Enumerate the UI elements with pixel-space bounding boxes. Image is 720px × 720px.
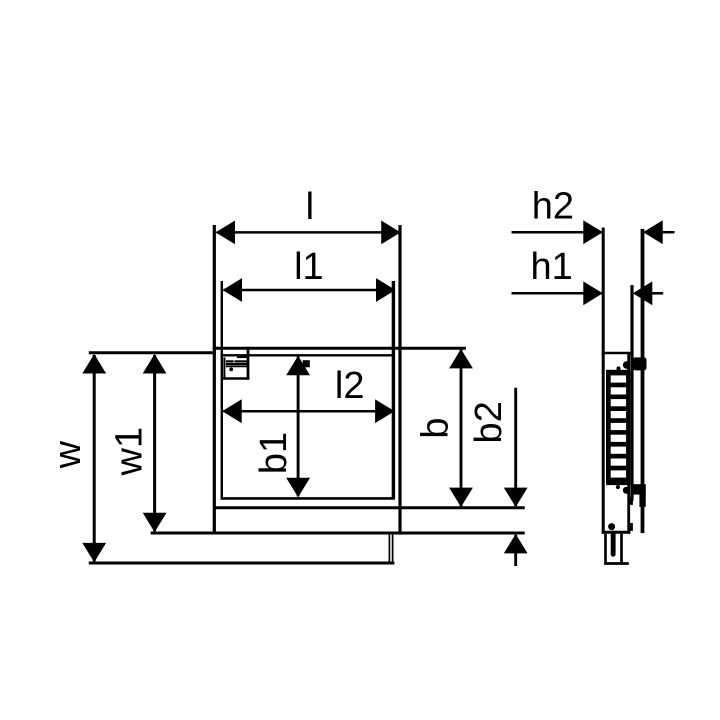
svg-text:w1: w1 [109, 427, 151, 477]
svg-text:l2: l2 [335, 365, 365, 407]
svg-text:h2: h2 [532, 185, 574, 227]
svg-text:w: w [47, 440, 89, 469]
svg-text:l: l [306, 186, 314, 228]
svg-text:b2: b2 [468, 401, 510, 443]
svg-text:b1: b1 [253, 432, 295, 474]
svg-text:l1: l1 [294, 246, 324, 288]
svg-text:b: b [414, 417, 456, 438]
svg-text:h1: h1 [531, 246, 573, 288]
